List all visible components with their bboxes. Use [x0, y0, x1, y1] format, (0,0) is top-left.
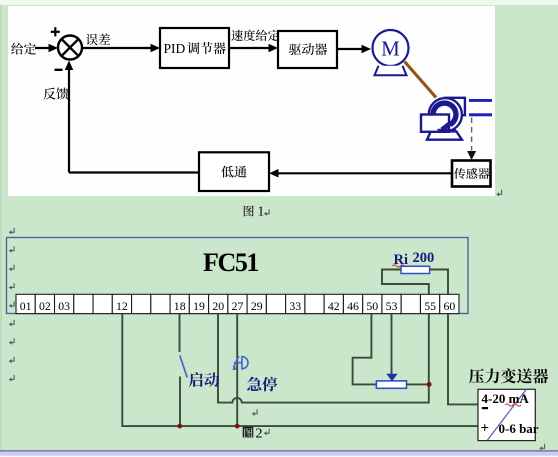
wire terminal 60 to transmitter - — [448, 314, 478, 405]
wire terminal 18 lower — [179, 377, 181, 427]
caption 图2 (highlighted) — [243, 427, 254, 438]
red squiggle under mA — [505, 404, 521, 406]
svg-text:60: 60 — [443, 299, 455, 313]
FC51 drive outline box — [7, 238, 469, 314]
wire driver to motor — [337, 48, 363, 50]
svg-text:0-6 bar: 0-6 bar — [499, 421, 539, 436]
wire potentiometer to junction dot — [407, 383, 429, 385]
svg-text:2: 2 — [256, 426, 263, 441]
wire terminal 18 upper — [179, 314, 181, 352]
svg-text:42: 42 — [328, 299, 340, 313]
svg-text:53: 53 — [386, 299, 398, 313]
wire terminal 50 to potentiometer left — [353, 314, 377, 385]
paragraph mark near e-stop wire — [252, 409, 257, 416]
label 传感器 — [454, 168, 489, 179]
left margin paragraph mark 8 — [9, 357, 14, 364]
PID controller box U1 — [160, 28, 229, 68]
junction dot at 18 — [177, 424, 182, 429]
transmitter diagonal (blue) — [487, 390, 526, 441]
svg-text:19: 19 — [193, 299, 205, 313]
wire Ri right to terminal 60 — [430, 270, 448, 295]
terminal strip — [16, 294, 459, 313]
svg-text:M: M — [381, 37, 400, 61]
svg-text:46: 46 — [347, 299, 359, 313]
svg-text:29: 29 — [251, 299, 263, 313]
svg-text:01: 01 — [20, 299, 32, 313]
svg-text:1: 1 — [258, 204, 265, 219]
low-pass box 低通 — [199, 152, 269, 191]
minus terminal label — [482, 407, 488, 409]
label 给定 (setpoint) — [11, 43, 36, 55]
figure 1 white canvas — [8, 6, 495, 196]
wire terminal 27 through e-stop — [236, 314, 238, 427]
wire terminal 55 down to junction — [428, 314, 430, 385]
svg-text:02: 02 — [39, 299, 51, 313]
left window edge sliver — [0, 5, 2, 450]
e-stop mushroom button symbol — [232, 356, 248, 370]
svg-text:50: 50 — [366, 299, 378, 313]
label 误差 (error) — [86, 34, 110, 46]
wire error: junction to PID box — [82, 47, 152, 49]
left margin paragraph mark 2 — [9, 246, 14, 253]
label 启动 (start) — [189, 372, 219, 387]
potentiometer body — [376, 381, 406, 388]
svg-text:03: 03 — [58, 299, 70, 313]
svg-text:55: 55 — [424, 299, 436, 313]
left margin paragraph mark 4 — [9, 283, 14, 290]
left margin paragraph mark 7 — [9, 338, 14, 345]
motor M circle — [373, 30, 409, 66]
wire terminal 53 to wiper — [391, 314, 393, 375]
label 低通 — [221, 166, 246, 178]
motor base — [375, 66, 407, 76]
wire sensor to low-pass box — [277, 172, 452, 174]
svg-text:18: 18 — [174, 299, 186, 313]
svg-text:PID: PID — [164, 41, 186, 56]
resistor Ri 200 body — [401, 266, 430, 273]
svg-text:33: 33 — [289, 299, 301, 313]
junction dot at potentiometer output — [427, 382, 432, 387]
svg-text:200: 200 — [413, 250, 435, 266]
paragraph mark after figure 1 caption — [264, 209, 269, 216]
paragraph mark after figure 2 caption — [264, 429, 269, 436]
pump assembly — [421, 98, 465, 140]
label 速度给定 (speed setpoint) — [231, 30, 279, 41]
bottom window edge band — [0, 450, 558, 457]
pressure transmitter box — [478, 389, 535, 440]
pipe lines (blue) — [469, 99, 492, 102]
driver box 驱动器 — [278, 31, 337, 68]
label 反馈 (feedback) — [43, 87, 68, 99]
red squiggle under Ri — [393, 265, 409, 267]
left margin paragraph mark 3 — [9, 265, 14, 272]
wire terminal 20 to terminal 55 (with hop) — [218, 314, 429, 403]
wire terminal 12 to transmitter + — [122, 314, 478, 427]
minus sign at summing junction — [55, 69, 63, 71]
label 驱动器 — [289, 43, 327, 55]
svg-text:4-20 mA: 4-20 mA — [482, 391, 530, 406]
wire Ri left to terminal 55 — [382, 270, 429, 295]
feedback wire: low-pass to junction — [69, 171, 199, 173]
svg-text:FC51: FC51 — [203, 248, 258, 277]
potentiometer wiper arrow — [386, 374, 397, 381]
svg-text:20: 20 — [212, 299, 224, 313]
summing junction (circle with X) — [58, 36, 82, 60]
junction dot at 27 — [235, 424, 240, 429]
left margin paragraph mark 6 — [9, 320, 14, 327]
plus sign at summing junction — [51, 27, 60, 36]
wire PID to driver box — [229, 47, 270, 49]
left margin paragraph mark 1 — [9, 228, 14, 235]
start switch blade (blue) — [180, 356, 187, 378]
wire setpoint to summing junction — [35, 47, 52, 49]
svg-text:+: + — [481, 421, 490, 437]
top window edge strip — [0, 0, 558, 5]
dashed line pump to sensor — [471, 118, 473, 151]
motor shaft (brown) — [405, 62, 437, 98]
label 急停 (emergency stop) — [247, 377, 277, 392]
paragraph mark after transmitter — [539, 444, 544, 451]
label 压力变送器 (pressure transmitter) — [469, 368, 548, 383]
svg-text:12: 12 — [116, 299, 128, 313]
left margin paragraph mark 9 — [9, 375, 14, 382]
sensor box 传感器 — [452, 161, 491, 187]
left margin paragraph mark 5 — [9, 301, 14, 308]
svg-text:27: 27 — [232, 299, 244, 313]
paragraph mark right of canvas — [496, 190, 501, 197]
caption 图1 — [244, 206, 254, 217]
